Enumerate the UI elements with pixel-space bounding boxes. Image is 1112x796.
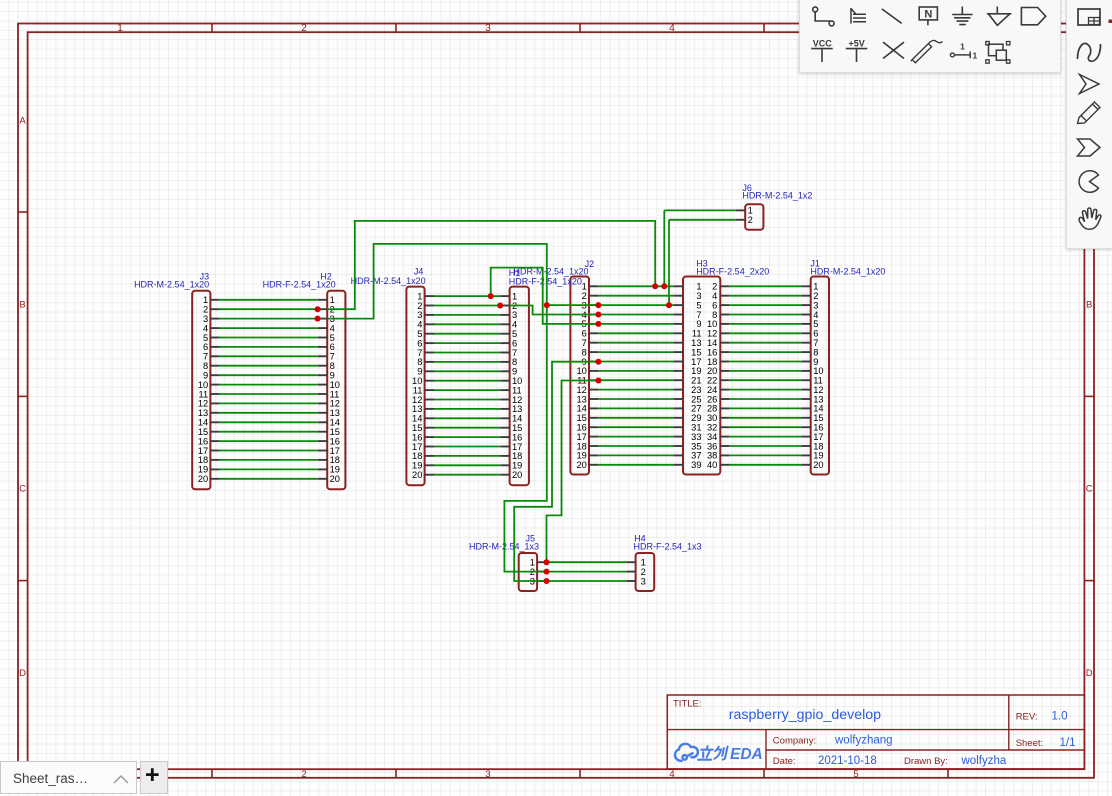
svg-text:39: 39 [691,460,701,470]
svg-text:HDR-F-2.54_2x20: HDR-F-2.54_2x20 [696,267,769,277]
svg-text:HDR-M-2.54_1x20: HDR-M-2.54_1x20 [810,267,885,277]
svg-text:HDR-M-2.54_1x20: HDR-M-2.54_1x20 [134,279,209,289]
svg-text:3: 3 [203,314,208,324]
svg-text:EDA: EDA [730,746,763,763]
svg-text:raspberry_gpio_develop: raspberry_gpio_develop [729,707,881,723]
svg-text:2: 2 [301,769,306,780]
svg-text:HDR-M-2.54_1x20: HDR-M-2.54_1x20 [351,276,426,286]
svg-text:20: 20 [576,460,586,470]
svg-text:J4: J4 [414,266,424,276]
svg-text:2: 2 [748,215,753,225]
svg-text:3: 3 [485,769,490,780]
svg-text:18: 18 [198,455,208,465]
svg-text:4: 4 [669,769,674,780]
svg-text:8: 8 [203,361,208,371]
svg-text:13: 13 [330,408,340,418]
svg-text:1/1: 1/1 [1060,737,1076,749]
svg-text:HDR-F-2.54_1x20: HDR-F-2.54_1x20 [509,277,582,287]
svg-text:Company:: Company: [773,736,816,747]
svg-text:40: 40 [707,460,717,470]
svg-text:5: 5 [853,769,858,780]
svg-text:wolfyzhang: wolfyzhang [834,735,893,747]
svg-text:1: 1 [117,23,123,34]
svg-text:3: 3 [641,576,646,586]
svg-text:B: B [19,300,25,311]
svg-text:B: B [1086,300,1092,311]
svg-text:1.0: 1.0 [1052,711,1068,723]
svg-text:20: 20 [412,470,422,480]
svg-text:20: 20 [198,474,208,484]
svg-text:18: 18 [330,455,340,465]
svg-text:D: D [1086,668,1093,679]
svg-text:20: 20 [512,470,522,480]
svg-text:D: D [19,668,26,679]
svg-text:A: A [19,116,26,127]
svg-text:HDR-F-2.54_1x20: HDR-F-2.54_1x20 [263,279,336,289]
svg-text:C: C [1086,484,1093,495]
svg-text:Date:: Date: [773,756,796,767]
svg-text:13: 13 [198,408,208,418]
svg-text:wolfyzha: wolfyzha [961,755,1007,767]
svg-text:C: C [19,484,26,495]
svg-text:20: 20 [330,474,340,484]
svg-text:4: 4 [669,23,675,34]
svg-text:8: 8 [330,361,335,371]
svg-text:3: 3 [485,23,491,34]
svg-text:Sheet:: Sheet: [1016,738,1043,749]
svg-text:TITLE:: TITLE: [673,699,702,710]
svg-text:20: 20 [813,460,823,470]
svg-text:HDR-F-2.54_1x3: HDR-F-2.54_1x3 [634,542,702,552]
svg-text:HDR-M-2.54_1x2: HDR-M-2.54_1x2 [742,190,812,200]
svg-text:2021-10-18: 2021-10-18 [818,755,877,767]
svg-text:REV:: REV: [1016,712,1038,723]
svg-text:Drawn By:: Drawn By: [904,756,948,767]
svg-text:2: 2 [301,23,307,34]
